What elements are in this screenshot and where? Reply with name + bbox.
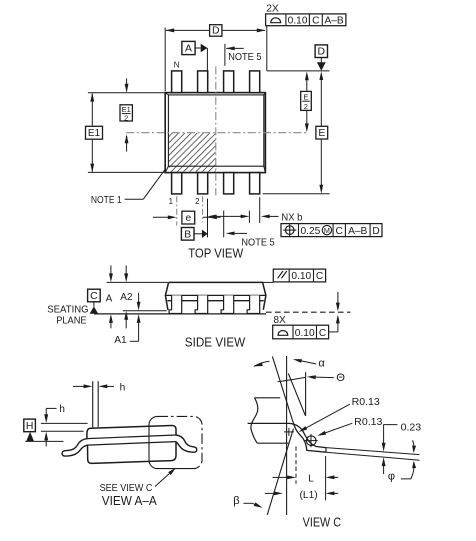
- svg-text:φ: φ: [388, 471, 395, 483]
- svg-text:NOTE 5: NOTE 5: [241, 238, 275, 249]
- svg-text:N: N: [174, 60, 180, 69]
- alpha angle arc: [254, 361, 270, 366]
- svg-text:2X: 2X: [266, 4, 279, 15]
- beta lead heel line: [267, 429, 293, 515]
- svg-text:D: D: [318, 46, 326, 57]
- pin-tip extension line top right: [267, 70, 330, 72]
- bottom row pins (1,2..): [172, 173, 182, 194]
- seating plane line: [94, 313, 266, 315]
- tilt reference lines: [41, 422, 88, 424]
- svg-text:C: C: [90, 291, 98, 302]
- svg-text:NX b: NX b: [281, 212, 302, 223]
- lead tip edge: [325, 448, 327, 453]
- dimension E1/2: [126, 78, 128, 91]
- vertical reference line: [286, 356, 288, 515]
- view A-A internal lead frame lines: [87, 435, 176, 439]
- svg-text:0.10: 0.10: [295, 328, 315, 339]
- svg-text:A: A: [185, 43, 192, 54]
- lead outer face and bend: [293, 423, 326, 453]
- svg-text:Θ: Θ: [336, 372, 345, 384]
- vertical centerline: [215, 67, 217, 196]
- svg-text:A2: A2: [120, 292, 133, 303]
- svg-text:h: h: [59, 404, 65, 415]
- svg-text:B: B: [184, 229, 191, 240]
- svg-text:1: 1: [169, 197, 173, 206]
- datum H label: [24, 419, 36, 432]
- dimension D extension line right (to 2X frame): [266, 26, 268, 71]
- svg-text:0.25: 0.25: [301, 226, 321, 237]
- lead thickness gauge lines: [92, 381, 94, 427]
- svg-text:TOP VIEW: TOP VIEW: [188, 246, 244, 261]
- svg-text:h: h: [120, 383, 126, 394]
- side view body outline: [165, 282, 266, 310]
- top row pins (N..): [172, 71, 182, 93]
- dimension E1: [91, 93, 93, 125]
- svg-text:A–B: A–B: [348, 226, 367, 237]
- svg-text:C: C: [312, 16, 319, 27]
- svg-text:8X: 8X: [273, 315, 286, 326]
- lead face line (alpha): [272, 356, 293, 422]
- dimension A: [110, 265, 112, 278]
- view C detail boundary box: [149, 416, 200, 468]
- dimension h (top): [73, 385, 85, 387]
- view A-A right gull-wing lead: [176, 435, 197, 452]
- svg-text:A: A: [106, 293, 113, 304]
- svg-text:NOTE 1: NOTE 1: [91, 195, 122, 206]
- svg-text:E: E: [303, 93, 308, 102]
- svg-text:C: C: [319, 328, 326, 339]
- foot bottom extension line (thin): [326, 452, 420, 460]
- datum C label: [88, 289, 101, 302]
- theta lead face line: [288, 373, 305, 415]
- svg-text:2: 2: [124, 113, 128, 122]
- svg-text:(L1): (L1): [300, 490, 318, 501]
- svg-text:SIDE VIEW: SIDE VIEW: [185, 335, 246, 350]
- dimension A1: [138, 293, 140, 303]
- dimension (L1): [265, 492, 275, 494]
- svg-text:NOTE 5: NOTE 5: [228, 52, 262, 63]
- top view body outer outline: [165, 93, 265, 173]
- datum A label: [182, 41, 195, 54]
- horizontal centerline: [126, 132, 309, 134]
- svg-text:0.23: 0.23: [401, 423, 422, 434]
- pin 1 centerline: [176, 196, 178, 225]
- dimension A2: [125, 265, 127, 278]
- dimension D extension line left: [164, 28, 166, 92]
- bend tangent point circle: [306, 436, 316, 446]
- svg-text:A1: A1: [114, 335, 127, 346]
- beta leader: [244, 502, 253, 504]
- svg-text:A–B: A–B: [324, 16, 343, 27]
- svg-text:C: C: [336, 226, 343, 237]
- svg-text:E1: E1: [88, 128, 101, 139]
- A1 reference line: [123, 310, 167, 312]
- bend tangent tick: [284, 431, 294, 433]
- svg-text:D: D: [212, 26, 220, 37]
- datum D label: [315, 45, 327, 58]
- svg-text:R0.13: R0.13: [354, 417, 383, 428]
- datum B label: [181, 228, 194, 241]
- svg-text:0.10: 0.10: [291, 271, 311, 282]
- note 5 callout (bottom): [223, 211, 225, 238]
- foot top extension line (thin): [326, 448, 420, 455]
- body section bottom line: [257, 442, 288, 444]
- alpha arc arrowhead: [254, 362, 263, 366]
- svg-text:D: D: [372, 226, 379, 237]
- dimension E: [320, 75, 322, 126]
- pin 2 centerline: [202, 196, 204, 222]
- svg-text:L: L: [308, 474, 314, 485]
- top view body corner bevels: [165, 93, 168, 95]
- side view top extension line: [107, 281, 169, 283]
- view A-A left gull-wing lead: [62, 439, 88, 457]
- dimension NX b extension lines: [248, 211, 250, 223]
- note 5 callout (top): [224, 44, 226, 66]
- side view gull-wing pins: [169, 295, 182, 313]
- svg-text:β: β: [233, 495, 239, 507]
- NX b position feature control frame: [281, 224, 382, 237]
- pin-tip extension line bottom right: [263, 193, 330, 195]
- seating plane witness arrow (down): [337, 292, 339, 304]
- svg-text:M: M: [324, 226, 330, 235]
- dimension L: [273, 476, 289, 478]
- body section break line: [251, 398, 258, 443]
- svg-text:SEATING: SEATING: [47, 305, 88, 316]
- dimension E/2: [306, 75, 308, 91]
- dimension NX b arrows: [216, 215, 244, 217]
- datum B leader line: [207, 199, 209, 238]
- svg-text:e: e: [185, 213, 191, 224]
- svg-text:2: 2: [195, 197, 199, 206]
- svg-text:E: E: [318, 128, 325, 139]
- theta reference vertical line: [305, 372, 307, 416]
- svg-text:R0.13: R0.13: [352, 397, 381, 408]
- svg-text:2: 2: [304, 102, 308, 111]
- svg-text:0.10: 0.10: [288, 16, 308, 27]
- seating plane extension (dashed): [266, 311, 351, 313]
- view A-A package body: [87, 425, 176, 463]
- svg-text:α: α: [318, 358, 325, 370]
- parallelism feature control frame: [263, 281, 274, 283]
- theta angle arc: [278, 377, 306, 381]
- svg-text:PLANE: PLANE: [56, 315, 87, 326]
- dimension 0.23: [384, 425, 398, 445]
- dimension E1 extension lines: [88, 92, 165, 94]
- svg-text:H: H: [26, 421, 34, 432]
- lead upper face and inner bend: [248, 423, 326, 447]
- dimension L extension lines: [295, 446, 297, 483]
- datum H reference line: [25, 440, 63, 442]
- dimension e: [153, 216, 169, 218]
- svg-text:VIEW C: VIEW C: [303, 515, 342, 530]
- svg-text:C: C: [316, 271, 323, 282]
- svg-text:VIEW A–A: VIEW A–A: [102, 493, 157, 508]
- top view body inner outline (mold step): [168, 95, 263, 166]
- note 1 hatched index area: [169, 133, 216, 172]
- body section top line: [254, 397, 280, 399]
- dimension D: [166, 29, 209, 31]
